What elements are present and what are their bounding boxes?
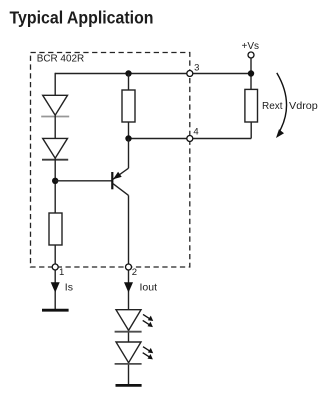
wire: emitter drop to pin 2 and LED chain: [128, 195, 130, 384]
pin 1: [52, 264, 58, 270]
LED LED1: [115, 310, 142, 332]
resistor R2 (internal, bias): [122, 90, 135, 122]
svg-text:Rext: Rext: [262, 101, 283, 112]
node: +Vs junction on top rail: [248, 70, 254, 76]
svg-text:Is: Is: [65, 282, 73, 294]
wire: collector drop to transistor: [128, 139, 130, 169]
resistor Rext: [245, 89, 258, 122]
svg-text:Iout: Iout: [140, 282, 158, 294]
dashed outline box BCR 402R: [31, 53, 190, 268]
pin 3: [187, 71, 193, 77]
wire: R1 to pin 1 and down to ground: [54, 245, 56, 309]
diode D1 (internal): [41, 95, 69, 116]
pin 4: [187, 136, 193, 142]
terminal +Vs: [248, 52, 254, 58]
node: base junction: [52, 178, 58, 184]
svg-text:1: 1: [59, 267, 64, 278]
wire: R2 bottom to pin-4 rail: [128, 122, 130, 139]
svg-text:4: 4: [193, 127, 198, 138]
wire: left drop to diode D1: [54, 73, 56, 96]
node: collector junction on pin-4 rail: [125, 135, 131, 141]
node: middle resistor top junction: [125, 70, 131, 76]
LED LED2: [115, 342, 142, 364]
ground (Is): [42, 309, 69, 312]
Vdrop arc arrow: [276, 73, 287, 138]
wire: top node down to resistor R2: [128, 74, 130, 91]
LED2 light arrows: [143, 347, 154, 360]
wire: pin-4 rail from node to Rext branch: [129, 138, 252, 140]
ground (LED chain): [116, 384, 142, 387]
svg-text:Typical Application: Typical Application: [10, 8, 154, 28]
svg-text:3: 3: [194, 63, 199, 74]
transistor Q1 (pnp): [112, 168, 128, 195]
wire: D2 to resistor R1, through base node: [54, 158, 56, 213]
current arrow Is: [51, 282, 60, 292]
svg-text:Vdrop: Vdrop: [289, 101, 318, 112]
diode D2 (internal): [42, 138, 68, 159]
svg-text:BCR 402R: BCR 402R: [37, 54, 84, 65]
LED1 light arrows: [143, 314, 154, 327]
wire: base wire from node to transistor: [55, 180, 111, 182]
resistor R1 (internal, emitter): [49, 213, 62, 245]
wire: D1 to D2: [54, 115, 56, 138]
wire: +Vs drop to Rext: [250, 58, 252, 89]
wire: Rext bottom to pin-4 rail: [250, 122, 252, 139]
svg-text:2: 2: [132, 267, 137, 278]
pin 2: [126, 264, 132, 270]
current arrow Iout: [124, 282, 133, 292]
svg-text:+Vs: +Vs: [242, 41, 260, 52]
wire: top rail from diode chain to +Vs junction: [55, 73, 251, 75]
